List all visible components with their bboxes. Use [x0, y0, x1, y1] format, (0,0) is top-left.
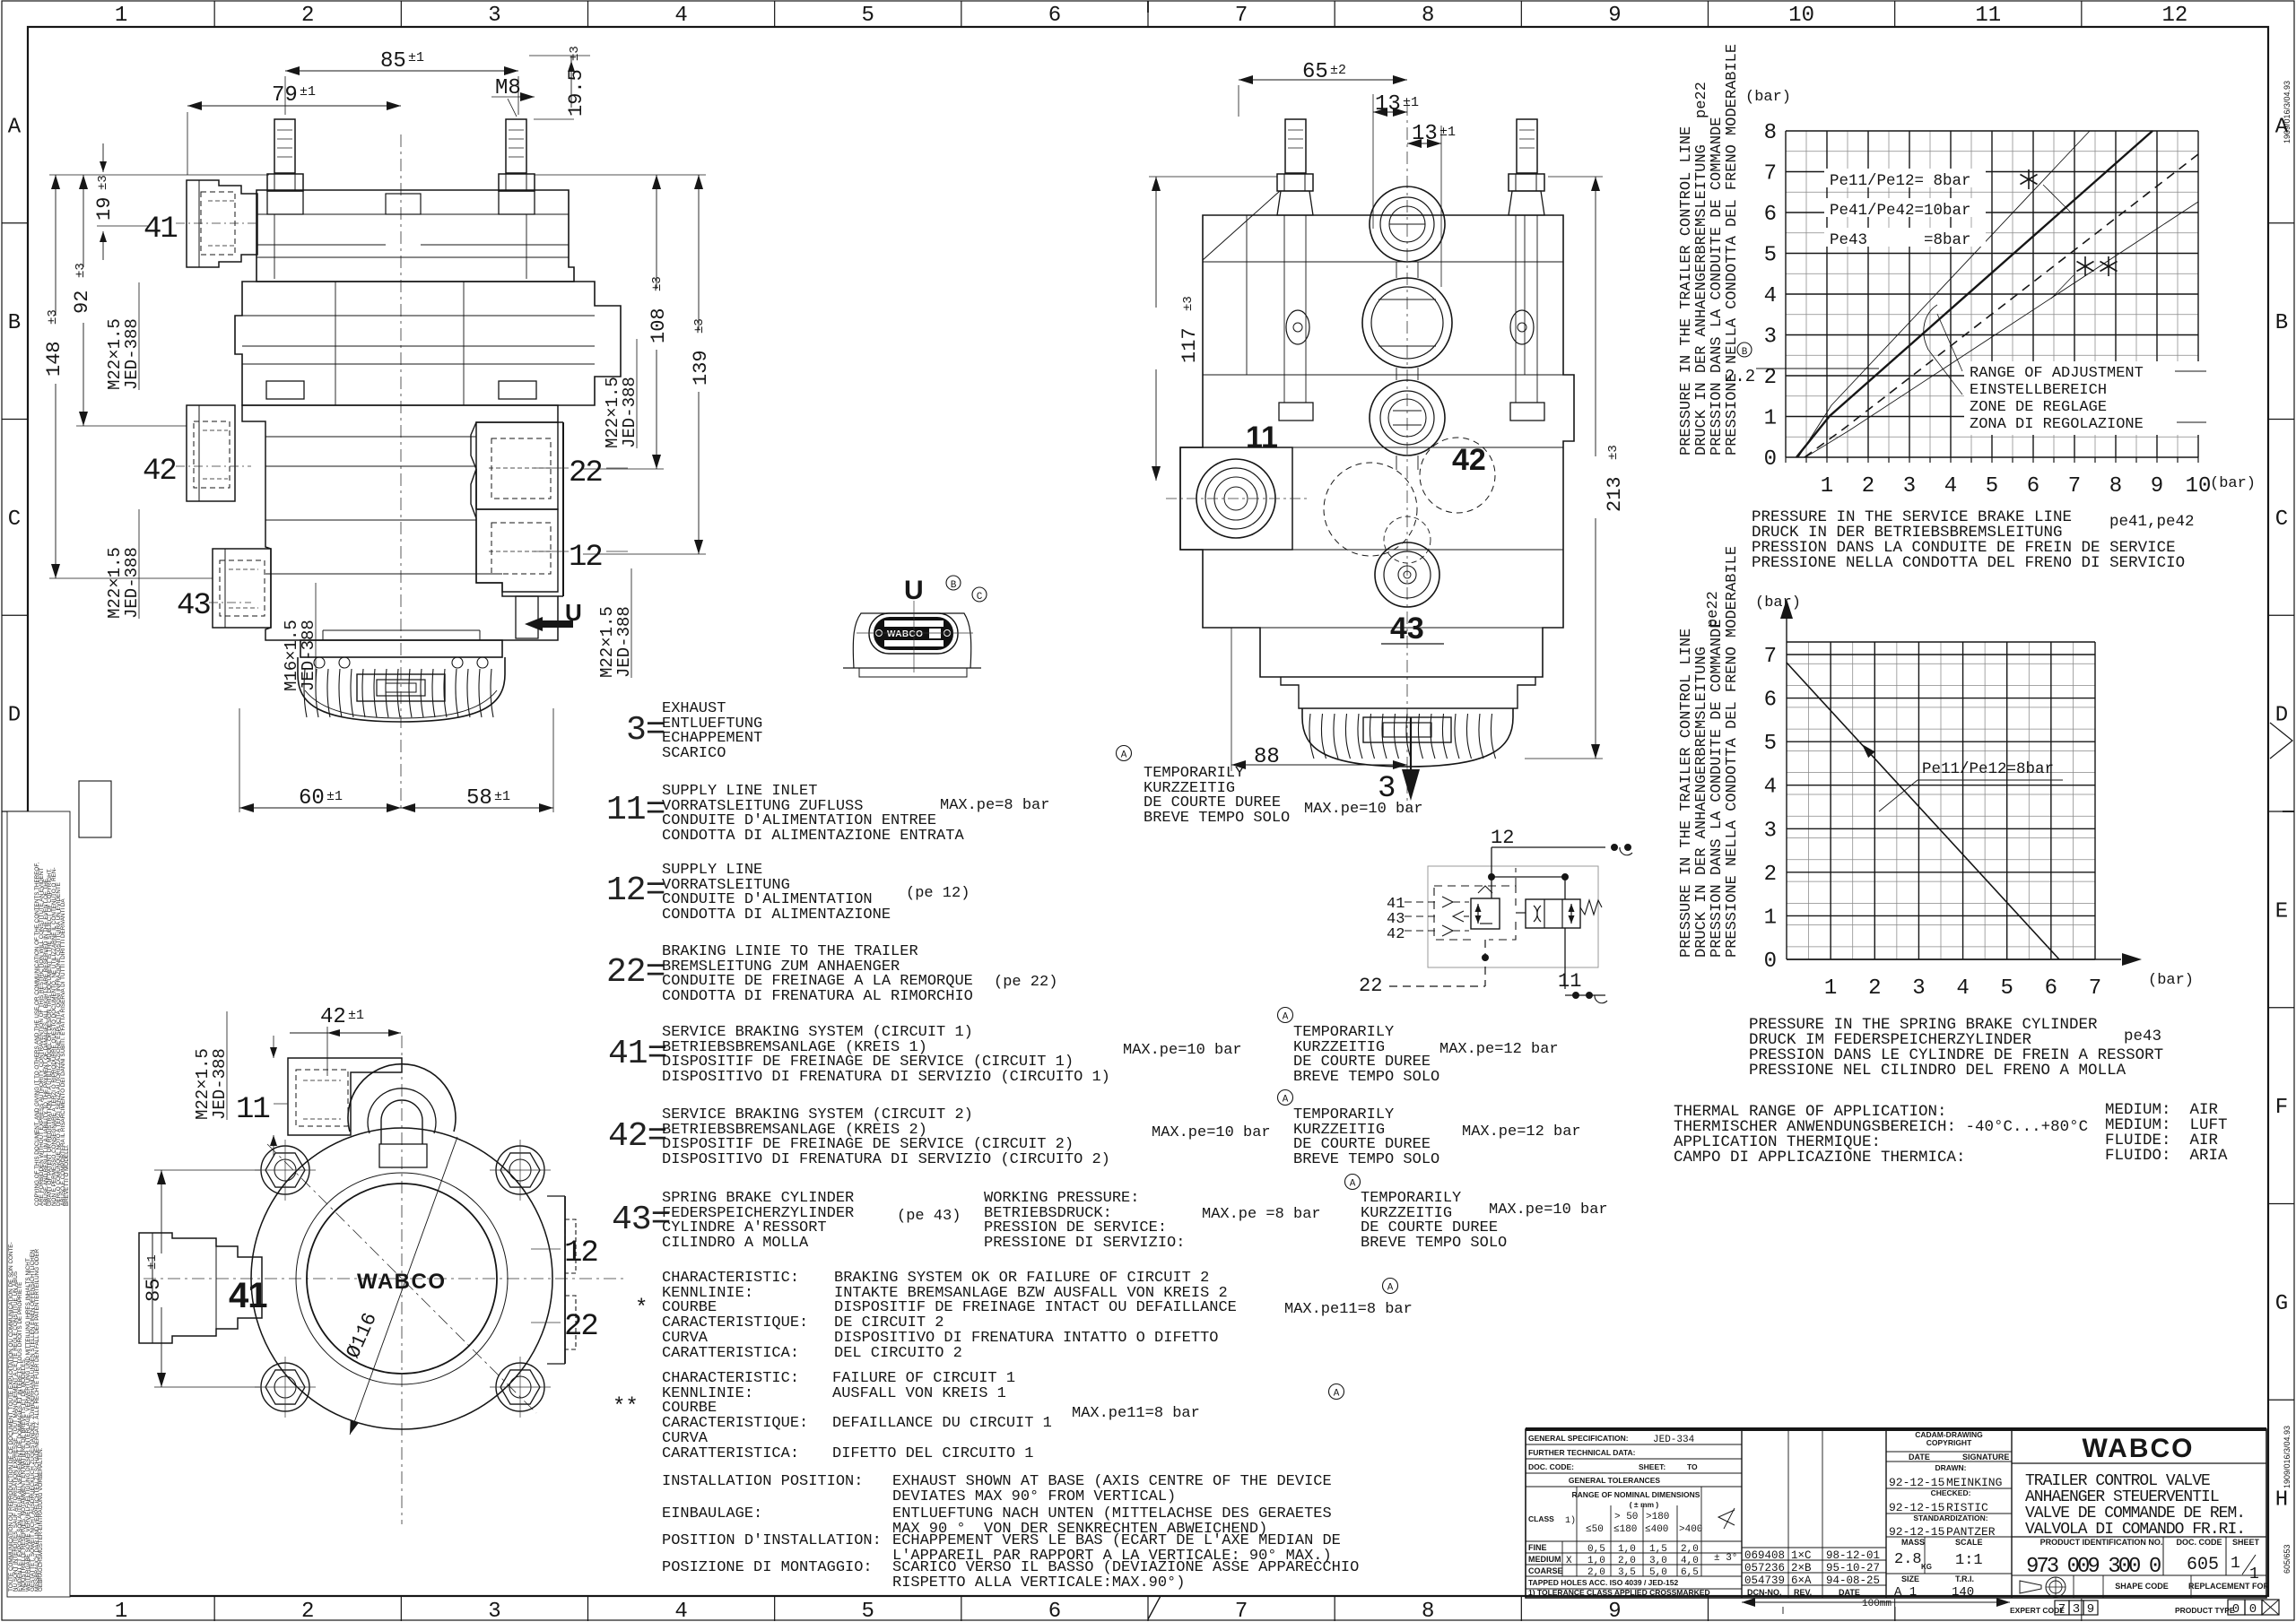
- svg-text:3,0: 3,0: [1649, 1556, 1667, 1566]
- schematic line to coupling head valve: [1516, 912, 1526, 914]
- graph1 minor grid: [1805, 131, 1807, 457]
- svg-text:RANGE OF NOMINAL DIMENSIONS: RANGE OF NOMINAL DIMENSIONS: [1572, 1490, 1700, 1499]
- svg-text:VALVOLA DI COMANDO FR.RI.: VALVOLA DI COMANDO FR.RI.: [2025, 1521, 2245, 1539]
- graph1 double star marker: [2084, 256, 2086, 276]
- svg-text:KG: KG: [1921, 1563, 1932, 1571]
- graph2 major grid: [1786, 642, 1787, 959]
- dim 65±2 front: [1238, 85, 1239, 117]
- graph2 minor grid: [1808, 642, 1810, 959]
- svg-text:STANDARDIZATION:: STANDARDIZATION:: [1913, 1514, 1987, 1522]
- svg-text:TO: TO: [1687, 1462, 1698, 1471]
- port 3 definition: [626, 714, 665, 748]
- graph1 thin line lower: [1805, 202, 2198, 457]
- graph1 star marker: [2028, 169, 2030, 189]
- circular view diam 116 dimension: [350, 1137, 457, 1435]
- svg-text:CLASS: CLASS: [1528, 1514, 1554, 1523]
- schematic dashed inner partial: [1515, 868, 1517, 886]
- svg-text:054739: 054739: [1744, 1574, 1785, 1587]
- side view stud M8 right: [506, 119, 526, 173]
- svg-text:JED-334: JED-334: [1653, 1435, 1695, 1445]
- front view hidden dashed circles: [1324, 463, 1417, 556]
- svg-text:069408: 069408: [1744, 1549, 1785, 1562]
- svg-text:T.R.I.: T.R.I.: [1955, 1574, 1974, 1583]
- shape code row: [2073, 1575, 2074, 1598]
- graph1 range of adjustment box: [1964, 361, 2205, 435]
- svg-text:9: 9: [2087, 1602, 2094, 1617]
- svg-text:GENERAL SPECIFICATION:: GENERAL SPECIFICATION:: [1528, 1434, 1629, 1443]
- graph1 B balloon and 2.2: [1737, 343, 1752, 357]
- graph1 main solid line: [1796, 131, 2152, 457]
- right margin fold triangle: [2270, 723, 2292, 759]
- svg-text:MASS: MASS: [1901, 1538, 1925, 1547]
- svg-text:1,0: 1,0: [1618, 1544, 1636, 1555]
- DCN table: [1742, 1547, 1886, 1548]
- graph2 declining line: [1787, 663, 2059, 959]
- svg-text:2,0: 2,0: [1587, 1567, 1605, 1578]
- circular view port 12 22 plate right: [547, 1195, 565, 1197]
- svg-text:WABCO: WABCO: [2083, 1434, 2195, 1463]
- front view body outline: [1180, 215, 1574, 677]
- graph1 tick marks: [1785, 457, 1787, 463]
- svg-text:TAPPED HOLES ACC. ISO 4039 / J: TAPPED HOLES ACC. ISO 4039 / JED-152: [1528, 1578, 1678, 1587]
- frame column ticks top/bottom: [213, 1, 215, 27]
- front view stud right: [1517, 119, 1537, 173]
- svg-text:1: 1: [2249, 1566, 2259, 1583]
- svg-text:1: 1: [2231, 1555, 2240, 1573]
- front view port circle 3: [1370, 380, 1445, 455]
- svg-text:0,5: 0,5: [1587, 1544, 1605, 1555]
- side view port 12 bulge: [471, 469, 558, 592]
- svg-text:≤50: ≤50: [1586, 1524, 1604, 1535]
- side view exhaust ribbed skirt: [298, 657, 505, 722]
- svg-text:5,0: 5,0: [1649, 1567, 1667, 1578]
- circled A balloons: [1117, 746, 1132, 761]
- port 12 definition: [606, 874, 665, 908]
- front view upper-left slant: [1203, 191, 1280, 260]
- graph1 thin line upper: [1798, 131, 2090, 457]
- dim 79±1: [187, 112, 188, 175]
- circular view port 11 housing rect: [288, 1058, 402, 1135]
- svg-text:1,0: 1,0: [1587, 1556, 1605, 1566]
- front view port circle 4: [1375, 542, 1439, 607]
- svg-text:EXPERT CODE: EXPERT CODE: [2010, 1606, 2065, 1615]
- characteristic block 2: [662, 1372, 808, 1462]
- side view port 41: [187, 180, 257, 267]
- side view port 22 bulge: [471, 422, 558, 509]
- scale bar 100mm: [1742, 1601, 2010, 1603]
- schematic pilot check triangles: [1442, 897, 1453, 907]
- graph1 dashed line failure: [1805, 154, 2198, 457]
- svg-text:COARSE: COARSE: [1528, 1566, 1563, 1575]
- svg-text:VALVE DE COMMANDE DE REM.: VALVE DE COMMANDE DE REM.: [2025, 1505, 2245, 1522]
- svg-text:3: 3: [2073, 1602, 2080, 1617]
- centre fold marks: [1147, 1, 1149, 13]
- side view centreline: [400, 134, 402, 811]
- schematic dashed line 22: [1484, 940, 1486, 986]
- svg-text:COPYRIGHT: COPYRIGHT: [1926, 1438, 1972, 1447]
- svg-text:DATE: DATE: [1839, 1588, 1860, 1597]
- svg-text:ANHAENGER STEUERVENTIL: ANHAENGER STEUERVENTIL: [2025, 1488, 2219, 1506]
- svg-text:( ± mm ): ( ± mm ): [1630, 1500, 1659, 1509]
- svg-text:X: X: [1566, 1556, 1572, 1566]
- exhaust arrow 3 front: [1410, 717, 1412, 769]
- svg-text:0: 0: [2232, 1602, 2239, 1617]
- circular view port 41 stub left: [139, 1233, 262, 1343]
- svg-text:SHEET:: SHEET:: [1639, 1462, 1665, 1471]
- port 22 definition: [606, 956, 665, 990]
- dim 13±1 first: [1372, 94, 1374, 229]
- port 42 definition: [608, 1120, 666, 1154]
- front view stud left: [1285, 119, 1306, 173]
- svg-text:>400: >400: [1679, 1524, 1702, 1535]
- side view exhaust flange: [300, 640, 502, 657]
- svg-text:SCALE: SCALE: [1955, 1538, 1983, 1547]
- nameplate body outline: [853, 613, 970, 668]
- tolerance table lines: [1526, 1540, 1742, 1542]
- frame row ticks left/right: [2, 222, 28, 224]
- characteristic block 1: [662, 1271, 808, 1362]
- port 11 definition: [606, 794, 665, 828]
- svg-text:FINE: FINE: [1528, 1543, 1547, 1552]
- svg-text:≤400: ≤400: [1645, 1524, 1668, 1535]
- svg-text:1) TOLERANCE CLASS APPLIED CRO: 1) TOLERANCE CLASS APPLIED CROSSMARKED: [1528, 1588, 1710, 1597]
- side view top cap body: [257, 190, 574, 282]
- svg-text:92-12-15: 92-12-15: [1889, 1476, 1944, 1489]
- circular view outer body: [251, 1128, 552, 1429]
- small reference box left margin: [79, 781, 111, 837]
- side view port 42: [187, 405, 235, 501]
- svg-text:± 3°: ± 3°: [1714, 1553, 1737, 1564]
- svg-text:DOC. CODE: DOC. CODE: [2176, 1538, 2222, 1547]
- svg-text:0: 0: [2249, 1602, 2257, 1617]
- graph1 legend white patch: [1824, 169, 1986, 187]
- svg-text:> 50: > 50: [1614, 1512, 1638, 1522]
- svg-text:A 1: A 1: [1894, 1585, 1917, 1600]
- svg-text:MEDIUM: MEDIUM: [1528, 1555, 1561, 1564]
- detail B C balloons: [946, 576, 961, 590]
- svg-text:DOC. CODE:: DOC. CODE:: [1528, 1462, 1574, 1471]
- svg-text:PRODUCT TYPE: PRODUCT TYPE: [2175, 1606, 2235, 1615]
- schematic dashed control box: [1434, 886, 1516, 940]
- side view mid body: [235, 282, 621, 405]
- schematic relay valve square: [1471, 898, 1500, 929]
- port 41 definition: [608, 1037, 666, 1071]
- side view stud M8 left: [274, 119, 295, 173]
- circular view bolts: [261, 1146, 309, 1194]
- svg-text:SHAPE CODE: SHAPE CODE: [2115, 1582, 2169, 1591]
- schematic line 11: [1564, 928, 1566, 989]
- svg-text:FURTHER TECHNICAL DATA:: FURTHER TECHNICAL DATA:: [1528, 1448, 1636, 1457]
- svg-text:100mm: 100mm: [1862, 1599, 1892, 1609]
- svg-text:RISTIC: RISTIC: [1946, 1501, 1988, 1514]
- port 43 definition: [612, 1203, 670, 1237]
- schematic junction: [1489, 874, 1495, 880]
- front view lower flange: [1281, 677, 1535, 708]
- svg-text:1,5: 1,5: [1649, 1544, 1667, 1555]
- circular view centrelines: [401, 1036, 403, 1524]
- svg-text:CHECKED:: CHECKED:: [1931, 1488, 1971, 1497]
- front view stud towers and lower nuts: [1283, 215, 1285, 403]
- svg-text:>180: >180: [1646, 1512, 1669, 1522]
- schematic enclosure box: [1428, 866, 1598, 967]
- svg-text:1×C: 1×C: [1791, 1549, 1812, 1562]
- svg-text:≤180: ≤180: [1613, 1524, 1637, 1535]
- graph1 major grid: [1785, 131, 1787, 457]
- front view port circle 2: [1362, 278, 1452, 368]
- dim 60±1 58±1 bottom: [239, 708, 240, 812]
- front view exhaust ribbed skirt: [1302, 708, 1513, 767]
- front view port circle 1 top: [1370, 186, 1445, 262]
- svg-text:DATE: DATE: [1909, 1453, 1930, 1462]
- dim 85±1: [284, 76, 286, 115]
- front view centreline: [1406, 103, 1408, 811]
- svg-text:2.8: 2.8: [1894, 1551, 1922, 1568]
- svg-text:92-12-15: 92-12-15: [1889, 1501, 1944, 1514]
- svg-text:GENERAL TOLERANCES: GENERAL TOLERANCES: [1569, 1476, 1661, 1485]
- svg-text:605: 605: [2187, 1555, 2219, 1575]
- svg-text:98-12-01: 98-12-01: [1826, 1549, 1880, 1562]
- front view side slot holes: [1286, 310, 1309, 344]
- schematic coupling head valve block: [1526, 899, 1580, 928]
- svg-text:2×B: 2×B: [1791, 1562, 1812, 1574]
- circular view top lobe port 11: [348, 1064, 456, 1132]
- dim 13±1 second: [1440, 126, 1442, 287]
- bottom centre fold triangle: [1135, 1596, 1161, 1619]
- svg-text:4,0: 4,0: [1681, 1556, 1699, 1566]
- svg-text:DCN-NO.: DCN-NO.: [1747, 1588, 1782, 1597]
- CADAM middle section: [1886, 1451, 2012, 1453]
- tolerance crossmark triangle: [1718, 1510, 1735, 1525]
- svg-text:95-10-27: 95-10-27: [1826, 1562, 1880, 1574]
- svg-text:TRAILER CONTROL VALVE: TRAILER CONTROL VALVE: [2025, 1472, 2210, 1490]
- title block left section rows: [1526, 1444, 1742, 1445]
- svg-text:6×A: 6×A: [1791, 1574, 1812, 1587]
- dim 42±1 circular: [326, 1027, 328, 1076]
- circular view centre pin: [381, 1100, 422, 1144]
- svg-text:SIZE: SIZE: [1901, 1574, 1919, 1583]
- svg-text:140: 140: [1952, 1585, 1974, 1600]
- svg-text:REPLACEMENT FOR: REPLACEMENT FOR: [2188, 1582, 2270, 1591]
- front view connecting neck lines: [1396, 262, 1397, 278]
- svg-text:3,5: 3,5: [1618, 1567, 1636, 1578]
- svg-text:2,0: 2,0: [1618, 1556, 1636, 1566]
- side view lower stud nuts: [266, 381, 304, 399]
- svg-text:MEINKING: MEINKING: [1946, 1476, 2002, 1489]
- side view U step block: [516, 596, 538, 638]
- svg-text:2,0: 2,0: [1681, 1544, 1699, 1555]
- schematic spring: [1580, 900, 1602, 915]
- installation position block: [662, 1475, 863, 1490]
- svg-text:1:1: 1:1: [1955, 1552, 1983, 1569]
- svg-text:94-08-25: 94-08-25: [1826, 1574, 1880, 1587]
- svg-text:057236: 057236: [1744, 1562, 1785, 1574]
- svg-text:PRODUCT IDENTIFICATION NO.: PRODUCT IDENTIFICATION NO.: [2040, 1538, 2163, 1547]
- svg-text:REV.: REV.: [1794, 1588, 1812, 1597]
- circular view inner circle: [307, 1184, 497, 1374]
- side view right port face plate: [558, 421, 563, 423]
- svg-text:6,5: 6,5: [1681, 1567, 1699, 1578]
- dim 88 bottom front: [1231, 628, 1232, 771]
- svg-text:SHEET: SHEET: [2232, 1538, 2260, 1547]
- svg-text:DRAWN:: DRAWN:: [1935, 1463, 1967, 1472]
- title block outer: [1526, 1427, 2266, 1431]
- svg-text:1): 1): [1565, 1515, 1576, 1526]
- front view port 11 boss: [1180, 447, 1292, 550]
- nameplate centrelines: [913, 601, 915, 672]
- side view lower body: [242, 405, 558, 640]
- side view port 43: [213, 549, 271, 628]
- nameplate stadium black: [869, 613, 958, 654]
- graph2 axis arrows: [1786, 619, 1787, 642]
- svg-text:SIGNATURE: SIGNATURE: [1962, 1453, 2009, 1462]
- svg-text:7: 7: [2058, 1602, 2066, 1617]
